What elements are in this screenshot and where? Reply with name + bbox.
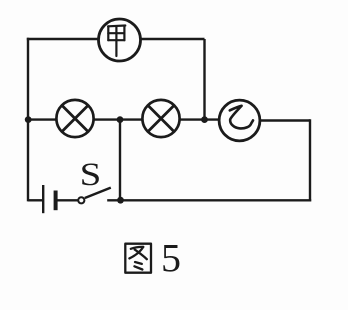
wire meter B to right [257,119,310,121]
switch S blade [85,188,111,198]
caption 图 glyph [125,244,151,273]
svg-text:S: S [80,156,102,193]
lamp L1 circle [56,100,93,137]
wire lamp row [28,118,220,120]
battery long plate [42,185,44,213]
wire top horizontal [27,38,205,40]
meter 乙 glyph [230,106,253,129]
lamp L2 cross [148,105,174,131]
meter 甲 circle [99,19,141,61]
meter 乙 circle [219,100,260,141]
lamp L2 circle [142,100,179,137]
meter 甲 glyph [108,26,125,57]
wire top-right vertical [203,39,205,120]
battery short plate [54,191,58,211]
wire bottom right [107,199,311,201]
junction node right of lamp2 [201,116,208,123]
wire between lamps vertical [119,120,121,201]
lamp L1 cross [62,105,88,131]
wire left vertical [27,38,29,202]
svg-text:5: 5 [161,236,181,281]
wire right vertical [309,119,311,201]
wire battery to switch [57,199,78,201]
junction node bottom [117,197,124,204]
wire bottom left to battery [28,199,43,201]
junction node left [25,116,32,123]
junction node between lamps [117,116,124,123]
switch S pivot [78,197,84,203]
